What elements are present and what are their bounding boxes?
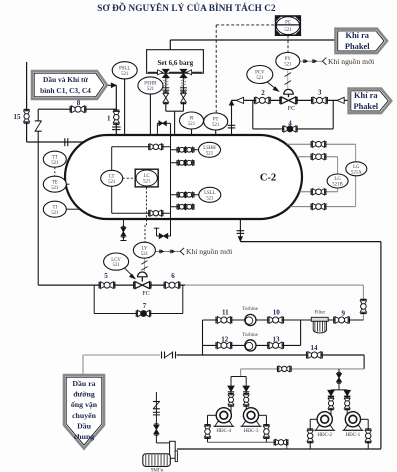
svg-text:521: 521 [141,252,149,257]
svg-text:đường: đường [73,390,95,399]
svg-text:TT: TT [52,155,58,160]
svg-text:LCV: LCV [111,258,121,263]
svg-text:521A: 521A [351,170,362,175]
svg-text:PT: PT [213,118,219,123]
svg-text:PSLL: PSLL [119,67,130,72]
svg-text:FC: FC [142,290,150,297]
svg-text:521: 521 [206,151,214,156]
svg-text:521: 521 [51,186,59,191]
svg-text:11: 11 [222,308,229,316]
svg-text:chung: chung [74,432,94,441]
svg-text:HĐC-4: HĐC-4 [216,429,231,434]
svg-text:PI: PI [189,117,194,122]
svg-text:521B: 521B [332,183,342,188]
svg-text:7: 7 [143,302,147,310]
svg-text:521: 521 [284,28,292,33]
svg-text:13: 13 [273,335,281,343]
svg-text:521: 521 [51,211,59,216]
svg-text:12: 12 [221,335,229,343]
svg-text:Turbine: Turbine [242,307,258,312]
svg-text:4: 4 [288,119,292,127]
svg-text:Phakel: Phakel [345,42,370,51]
svg-text:521: 521 [256,76,264,81]
svg-text:HĐC-3: HĐC-3 [244,429,259,434]
svg-text:PC: PC [285,21,291,26]
svg-text:LG: LG [353,165,360,170]
svg-text:Khí ra: Khí ra [354,91,378,100]
svg-text:521: 521 [108,180,116,185]
svg-text:9: 9 [342,309,346,317]
svg-text:chuyển: chuyển [72,411,96,420]
svg-text:521: 521 [188,122,196,127]
svg-text:15: 15 [14,113,22,121]
svg-text:Turbine: Turbine [242,333,258,338]
svg-text:521: 521 [121,72,129,77]
svg-text:HĐC-2: HĐC-2 [317,433,332,438]
svg-text:521: 521 [143,180,151,185]
svg-text:LSLL: LSLL [204,191,216,196]
svg-text:ống vận: ống vận [71,400,98,409]
svg-text:6: 6 [171,272,175,280]
svg-text:521: 521 [284,63,292,68]
svg-text:521: 521 [212,123,220,128]
svg-text:C-2: C-2 [260,173,276,184]
svg-text:PCV: PCV [255,71,265,76]
svg-text:521: 521 [51,161,59,166]
svg-text:TE: TE [52,180,58,185]
svg-text:Dầu: Dầu [77,421,92,430]
svg-text:521: 521 [206,196,214,201]
svg-text:SƠ ĐỒ NGUYÊN LÝ CỦA BÌNH TÁCH: SƠ ĐỒ NGUYÊN LÝ CỦA BÌNH TÁCH C2 [97,3,276,13]
svg-text:2: 2 [261,89,265,97]
svg-text:Set 6,6 barg: Set 6,6 barg [158,59,194,67]
svg-text:LSHH: LSHH [203,146,216,151]
svg-text:521: 521 [112,263,120,268]
svg-text:1: 1 [107,115,111,123]
svg-text:LG: LG [334,177,341,182]
svg-text:FC: FC [288,105,296,112]
svg-text:3: 3 [318,89,322,97]
svg-text:9MГн: 9MГн [151,468,164,472]
svg-text:TI: TI [53,205,58,210]
svg-text:Khí nguồn mới: Khí nguồn mới [328,57,374,66]
svg-text:PY: PY [285,57,292,62]
svg-text:Khí nguồn mới: Khí nguồn mới [186,247,232,256]
svg-text:Phakel: Phakel [353,102,378,111]
svg-text:5: 5 [104,272,108,280]
svg-text:8: 8 [77,99,81,107]
svg-text:LT: LT [109,175,114,180]
svg-text:bình C1, C3, C4: bình C1, C3, C4 [40,86,91,95]
svg-text:521: 521 [147,87,155,92]
svg-text:PSHH: PSHH [144,82,157,87]
svg-text:LY: LY [141,246,147,251]
svg-text:Filter: Filter [314,310,325,315]
svg-text:14: 14 [311,344,319,352]
svg-text:Dầu ra: Dầu ra [72,379,95,388]
svg-text:HĐC-1: HĐC-1 [346,433,361,438]
svg-text:Dầu và Khí từ: Dầu và Khí từ [43,75,88,84]
svg-text:Khí ra: Khí ra [346,31,370,40]
svg-text:10: 10 [273,308,281,316]
svg-text:LC: LC [144,174,150,179]
